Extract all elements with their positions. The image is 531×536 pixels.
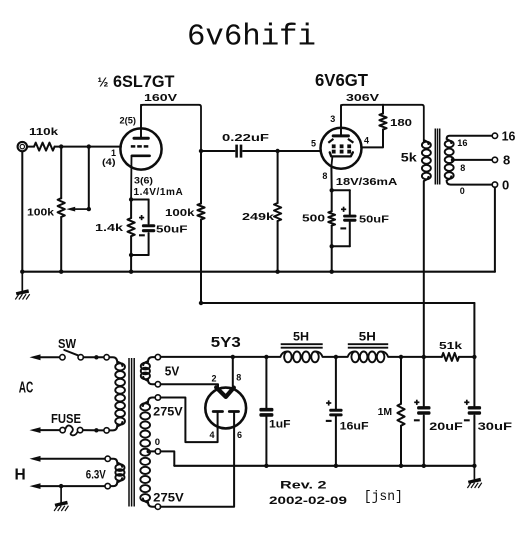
node loop bottom junction V2 <box>330 244 334 248</box>
node rail C6 <box>422 464 426 468</box>
T1 5V bottom terminal <box>155 382 160 387</box>
V1 grid dashes <box>131 145 136 148</box>
node bus 249k <box>275 270 279 274</box>
node bus pot <box>59 270 63 274</box>
svg-text:0: 0 <box>460 186 465 196</box>
T1 HV winding 275-0-275 <box>148 398 155 403</box>
wire node G2 to V2 grid <box>278 150 321 152</box>
V2 cathode lead <box>330 158 333 167</box>
T1 HV top terminal <box>155 395 160 400</box>
node jack-top junction A <box>59 144 63 148</box>
svg-text:3: 3 <box>330 114 335 124</box>
node 30uF junction <box>472 355 476 359</box>
resistor R9 1M <box>397 404 404 426</box>
fuse contact left <box>60 427 65 432</box>
node V2 cathode junction <box>330 188 334 192</box>
svg-text:100k: 100k <box>165 207 195 219</box>
T1 core <box>128 358 130 507</box>
ground bus <box>22 271 495 273</box>
svg-text:6SL7GT: 6SL7GT <box>113 72 175 91</box>
svg-text:6: 6 <box>237 430 242 440</box>
svg-text:50uF: 50uF <box>156 223 188 235</box>
svg-text:275V: 275V <box>153 405 183 419</box>
resistor R4 100k <box>197 204 204 220</box>
PSU ground rail <box>174 465 474 467</box>
svg-text:8: 8 <box>322 171 327 181</box>
wire jack to ground bus <box>21 152 23 272</box>
node wiper junction <box>87 207 91 211</box>
node loop bottom junction <box>129 253 133 257</box>
V1 cathode lead <box>130 156 132 200</box>
svg-text:5Y3: 5Y3 <box>211 334 241 351</box>
wire to C7 <box>473 357 475 406</box>
T2 core <box>434 129 436 185</box>
svg-text:8: 8 <box>503 152 510 167</box>
svg-text:(4): (4) <box>102 157 116 167</box>
capacitor C6 20uF <box>414 400 431 421</box>
wire fuse to T1 primary bottom <box>83 429 104 431</box>
svg-text:0.22uF: 0.22uF <box>222 132 270 144</box>
fuse element <box>65 425 77 435</box>
choke L1 5H coil <box>280 351 322 362</box>
node pin8 junction <box>231 355 235 359</box>
svg-text:50uF: 50uF <box>359 214 390 226</box>
svg-text:110k: 110k <box>29 126 58 138</box>
V3 left plate bar <box>213 410 222 413</box>
tube V1 1/2 6SL7GT envelope <box>120 128 161 169</box>
node P1 plate node <box>199 149 203 153</box>
node 20uF/OPT junction <box>422 355 426 359</box>
svg-text:5k: 5k <box>401 151 417 165</box>
capacitor C4 1uF <box>259 408 273 417</box>
svg-text:[jsn]: [jsn] <box>364 490 403 505</box>
wire to R7 top <box>331 190 333 211</box>
wire P1 to C2 <box>201 150 235 152</box>
svg-text:5H: 5H <box>293 330 309 344</box>
terminal 16 <box>492 133 497 138</box>
V2 grid squares <box>332 144 336 148</box>
T1 5V top terminal <box>155 354 160 359</box>
wire 5V to V3 pin2 <box>161 384 218 387</box>
wire cathode loop bottom <box>131 254 149 256</box>
wire center tap to PSU rail <box>161 451 175 465</box>
svg-text:0: 0 <box>502 178 509 193</box>
V3 right plate bar <box>229 410 238 413</box>
wire to R3 top <box>130 200 132 219</box>
wire to C5 <box>335 357 337 409</box>
wire L2 to 51k <box>388 356 442 358</box>
resistor R3 1.4k <box>128 218 135 236</box>
node rail C4 <box>264 464 268 468</box>
wire cathode loop top <box>131 199 149 201</box>
pot wiper arrow <box>66 207 89 212</box>
choke L2 5H core <box>348 343 388 345</box>
wire cathode loop top V2 <box>332 189 350 191</box>
input jack J1 <box>18 142 27 151</box>
V2 plate bar <box>333 134 348 137</box>
switch contact left <box>60 355 65 360</box>
svg-text:2: 2 <box>212 374 217 384</box>
node rail R9 <box>399 464 403 468</box>
svg-text:Rev. 2: Rev. 2 <box>280 480 327 492</box>
terminal 0 <box>492 182 497 187</box>
svg-text:18V/36mA: 18V/36mA <box>336 177 398 188</box>
node rail C7 <box>472 464 476 468</box>
svg-text:1uF: 1uF <box>269 418 291 430</box>
wire R7 bottom to bus <box>331 226 333 272</box>
wire to C3 top <box>349 190 351 214</box>
T1 primary bottom terminal <box>104 428 109 433</box>
wire B+ feed down to 30uF node <box>473 303 475 357</box>
svg-text:AC: AC <box>19 380 34 397</box>
ground symbol PSU <box>467 466 481 488</box>
wire OPT primary to B+ node <box>423 181 425 357</box>
choke L2 5H coil <box>348 351 389 362</box>
node B+ feed corner <box>199 301 203 305</box>
wire C3 bottom <box>349 222 351 246</box>
T1 primary top terminal <box>104 355 109 360</box>
wire P1 to R4 <box>200 151 202 204</box>
svg-text:6v6hifi: 6v6hifi <box>187 20 316 55</box>
svg-text:1M: 1M <box>378 406 393 418</box>
wire to pot top <box>60 147 62 199</box>
node secondary 8 tap <box>451 158 455 162</box>
AC line with arrow (fuse side) <box>30 427 60 433</box>
V2 plate lead <box>340 105 342 135</box>
wire V3 pin6 to HV bottom <box>161 412 235 507</box>
capacitor C7 30uF <box>464 400 481 421</box>
node HV center tap on coil <box>147 449 151 453</box>
wire R3 bottom to bus <box>130 236 132 272</box>
choke L1 5H core <box>281 343 323 345</box>
node heater ground junction <box>59 484 63 488</box>
wire to C1 top <box>148 200 150 224</box>
wire rail to R6 <box>382 105 384 114</box>
svg-text:500: 500 <box>302 213 325 225</box>
wire secondary 0 tap <box>447 181 493 185</box>
wire R6 to V2 screen pin4 <box>361 130 383 148</box>
svg-text:6V6GT: 6V6GT <box>315 70 368 90</box>
svg-text:3(6): 3(6) <box>134 175 153 185</box>
wire B+ feed horizontal <box>201 302 474 304</box>
potentiometer R2 100k <box>58 198 65 217</box>
svg-text:4: 4 <box>210 430 215 440</box>
switch blade <box>64 350 78 355</box>
wire V3 pin4 to HV top <box>161 398 218 443</box>
wire L1 to L2 <box>323 356 348 358</box>
svg-text:½: ½ <box>98 74 109 89</box>
wire B+ from 5V top <box>161 356 281 358</box>
resistor R1 110k <box>34 143 55 151</box>
wire C1 bottom <box>148 233 150 255</box>
T1 5V winding <box>148 357 155 362</box>
svg-text:306V: 306V <box>346 92 379 104</box>
wire cathode loop bottom V2 <box>332 245 350 247</box>
node wiper-top junction B <box>87 144 91 148</box>
tube V3 5Y3 envelope <box>205 388 246 429</box>
output transformer T2 primary <box>423 140 425 142</box>
V2 cathode bracket <box>330 152 353 156</box>
node primary top dot <box>94 355 98 359</box>
svg-text:16uF: 16uF <box>340 420 369 432</box>
svg-text:16: 16 <box>457 138 467 148</box>
node bus V1 cathode <box>129 270 133 274</box>
svg-text:8: 8 <box>236 373 241 383</box>
svg-text:160V: 160V <box>144 92 177 104</box>
wire C4 to PSU rail <box>265 417 267 466</box>
T1 HV bottom terminal <box>155 504 160 509</box>
wire V2 cathode down <box>330 166 332 190</box>
heater line top arrow <box>30 456 106 462</box>
svg-text:5: 5 <box>311 139 316 149</box>
ground symbol heater <box>54 486 68 511</box>
terminal 8 <box>492 157 497 162</box>
node primary bottom dot <box>94 428 98 432</box>
wire C7 to PSU rail <box>473 416 475 466</box>
node bus V2 cathode <box>330 270 334 274</box>
svg-text:249k: 249k <box>242 211 274 223</box>
T1 primary winding <box>109 357 117 363</box>
wire C6 to PSU rail <box>423 416 425 466</box>
svg-text:4: 4 <box>364 136 369 146</box>
svg-text:51k: 51k <box>439 340 462 352</box>
svg-text:H: H <box>15 466 26 483</box>
AC line with arrow (switch side) <box>30 354 60 360</box>
svg-text:0: 0 <box>155 437 160 448</box>
resistor R8 51k <box>442 353 459 361</box>
svg-text:100k: 100k <box>27 207 54 219</box>
V1 plate lead <box>140 105 142 138</box>
wire V1 plate to node P1 <box>141 105 201 151</box>
svg-text:5V: 5V <box>165 365 180 379</box>
wire C5 to PSU rail <box>335 416 337 466</box>
capacitor C5 16uF <box>326 400 343 421</box>
V1 cathode bar <box>132 155 150 158</box>
svg-text:180: 180 <box>390 117 412 129</box>
wire to C6 <box>423 357 425 406</box>
resistor R5 249k <box>274 203 281 221</box>
T1 6.3V bottom terminal <box>105 483 110 488</box>
V2 beam plates <box>328 139 353 143</box>
svg-text:1.4V/1mA: 1.4V/1mA <box>134 187 184 198</box>
wire V3 pin8 to B+ line <box>232 357 234 390</box>
wire to R9 <box>400 357 402 404</box>
svg-text:275V: 275V <box>153 490 184 504</box>
node G2 grid node <box>275 149 279 153</box>
V1 plate bar <box>134 137 148 140</box>
wire 51k to 30uF node <box>459 356 474 358</box>
T2 secondary coil <box>445 139 454 181</box>
resistor R6 180 <box>379 114 386 130</box>
heater line bottom arrow <box>30 483 106 489</box>
wire R9 to PSU rail <box>400 426 402 466</box>
node 1M junction <box>399 355 403 359</box>
svg-text:1.4k: 1.4k <box>95 222 123 234</box>
svg-text:6.3V: 6.3V <box>86 470 106 482</box>
capacitor C3 50uF <box>340 207 356 229</box>
svg-text:16: 16 <box>502 129 516 144</box>
svg-text:2(5): 2(5) <box>120 116 137 126</box>
tube V2 6V6GT envelope <box>321 128 362 169</box>
wire secondary 8 tap <box>453 159 492 161</box>
node 1uF junction <box>264 355 268 359</box>
capacitor C1 50uF <box>139 215 155 235</box>
wire C2 to node G2 <box>243 150 278 152</box>
ground symbol main <box>15 272 29 300</box>
wire switch to T1 primary top <box>83 356 104 358</box>
wire R4 to B+ feed <box>200 220 202 304</box>
node bus jack <box>20 270 24 274</box>
node V1 cathode junction <box>129 197 133 201</box>
svg-text:SW: SW <box>58 337 76 351</box>
T1 HV center tap terminal <box>155 449 160 454</box>
wire pot bottom to bus <box>60 217 62 272</box>
switch contact right <box>78 355 83 360</box>
T2 primary coil 5k <box>422 140 431 181</box>
fuse contact right <box>77 427 82 432</box>
svg-text:30uF: 30uF <box>478 421 513 433</box>
wire R1 to V1 grid <box>55 146 121 148</box>
node 16uF junction <box>334 355 338 359</box>
T1 6.3V top terminal <box>105 456 110 461</box>
wire terminal 0 to ground bus <box>494 187 496 271</box>
svg-text:5H: 5H <box>359 330 376 344</box>
svg-text:FUSE: FUSE <box>51 412 81 426</box>
wire wiper to input line <box>88 147 90 210</box>
node rail C5 <box>334 464 338 468</box>
wire R5 to bus <box>277 221 279 272</box>
T1 6.3V winding <box>110 459 117 464</box>
resistor R7 500 <box>328 211 335 225</box>
capacitor C2 0.22uF <box>237 145 241 158</box>
wire secondary 16 tap <box>447 136 493 139</box>
wire to C4 <box>265 357 267 408</box>
svg-text:2002-02-09: 2002-02-09 <box>269 495 347 507</box>
wire G2 to R5 <box>277 151 279 203</box>
wire center tap <box>149 450 156 452</box>
V3 filament <box>216 387 234 397</box>
wire jack to R1 <box>27 146 34 148</box>
wire V2 plate rail to OPT <box>341 105 424 140</box>
svg-text:8: 8 <box>460 163 465 173</box>
svg-text:20uF: 20uF <box>429 421 463 433</box>
